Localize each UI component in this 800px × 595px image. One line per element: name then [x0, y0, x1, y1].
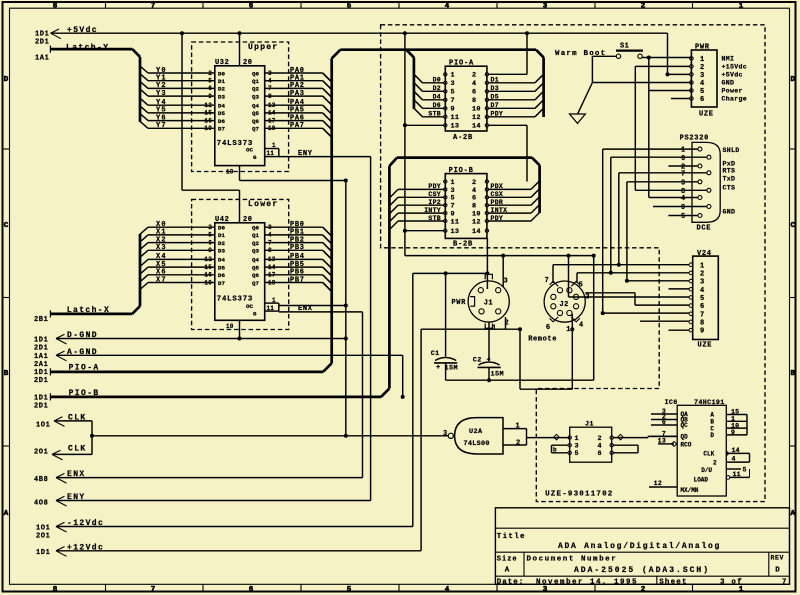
svg-text:PS2320: PS2320: [680, 134, 709, 142]
svg-text:5: 5: [451, 89, 455, 97]
svg-text:1: 1: [566, 326, 571, 334]
svg-text:4: 4: [700, 80, 705, 88]
svg-text:3: 3: [268, 224, 272, 231]
svg-text:IP2: IP2: [428, 199, 441, 206]
svg-text:1D1: 1D1: [36, 549, 50, 557]
svg-text:11: 11: [451, 114, 460, 122]
svg-text:CSY: CSY: [428, 191, 441, 198]
svg-text:Q3: Q3: [252, 93, 259, 100]
svg-text:D0: D0: [218, 70, 225, 77]
svg-text:STB: STB: [428, 111, 441, 118]
svg-text:S1: S1: [620, 43, 629, 51]
svg-text:6: 6: [249, 3, 254, 11]
svg-text:INTY: INTY: [424, 207, 441, 214]
svg-text:6: 6: [472, 195, 476, 203]
svg-text:9: 9: [208, 93, 212, 100]
svg-text:8: 8: [53, 586, 58, 594]
svg-text:Q4: Q4: [252, 257, 259, 264]
svg-text:A-2B: A-2B: [453, 134, 473, 142]
svg-text:D5: D5: [491, 94, 499, 101]
svg-text:PIO-B: PIO-B: [449, 167, 474, 175]
svg-text:9: 9: [681, 204, 686, 212]
svg-text:3: 3: [700, 279, 705, 287]
svg-text:4: 4: [681, 195, 686, 203]
svg-text:7: 7: [782, 578, 787, 586]
svg-text:D5: D5: [218, 264, 225, 271]
svg-text:STB: STB: [428, 215, 441, 222]
svg-text:15: 15: [204, 264, 212, 271]
svg-text:D7: D7: [218, 280, 225, 287]
svg-text:3: 3: [543, 3, 548, 11]
svg-text:D1: D1: [218, 78, 225, 85]
svg-text:MX/MN: MX/MN: [680, 487, 698, 494]
svg-text:OC: OC: [246, 303, 253, 310]
svg-text:2: 2: [472, 179, 476, 187]
svg-text:Charge: Charge: [722, 96, 748, 103]
svg-text:+15Vdc: +15Vdc: [722, 64, 748, 71]
svg-text:ENX: ENX: [298, 305, 313, 313]
svg-text:D2: D2: [433, 85, 441, 92]
svg-text:1: 1: [700, 56, 705, 64]
svg-text:RTS: RTS: [723, 168, 736, 175]
svg-text:5: 5: [451, 195, 455, 203]
svg-text:17: 17: [268, 272, 276, 279]
svg-text:19: 19: [204, 125, 212, 132]
svg-text:Q5: Q5: [252, 264, 259, 271]
svg-text:7: 7: [268, 239, 272, 246]
svg-text:13: 13: [268, 102, 276, 109]
svg-text:PDY: PDY: [428, 183, 441, 190]
svg-text:D: D: [775, 567, 780, 575]
svg-text:5: 5: [743, 466, 747, 473]
svg-text:2D1: 2D1: [34, 377, 48, 385]
svg-text:PWR: PWR: [695, 43, 710, 51]
svg-text:1D1: 1D1: [34, 337, 48, 345]
svg-text:D/U: D/U: [701, 467, 712, 474]
svg-text:74LS373: 74LS373: [217, 296, 253, 304]
svg-text:1D1: 1D1: [34, 369, 48, 377]
svg-text:Q0: Q0: [252, 70, 259, 77]
svg-text:D6: D6: [433, 102, 441, 109]
svg-text:CSX: CSX: [491, 191, 504, 198]
svg-text:Date:: Date:: [497, 578, 525, 586]
svg-text:NMI: NMI: [722, 56, 735, 63]
svg-text:U32: U32: [215, 59, 229, 67]
svg-text:1D1: 1D1: [34, 394, 48, 402]
svg-text:6: 6: [700, 96, 705, 104]
svg-text:8: 8: [700, 320, 705, 328]
svg-text:Q4: Q4: [252, 103, 259, 110]
svg-text:2: 2: [516, 440, 521, 448]
svg-text:D4: D4: [218, 103, 225, 110]
svg-text:2: 2: [208, 224, 212, 231]
svg-text:G: G: [253, 311, 257, 318]
svg-text:14: 14: [472, 123, 481, 131]
svg-text:D6: D6: [218, 272, 225, 279]
svg-text:9: 9: [208, 247, 212, 254]
svg-text:4: 4: [268, 232, 272, 239]
svg-text:D6: D6: [218, 118, 225, 125]
svg-text:13: 13: [451, 123, 460, 131]
svg-text:3: 3: [504, 278, 509, 286]
svg-text:14: 14: [732, 447, 740, 454]
svg-text:D3: D3: [218, 248, 225, 255]
svg-text:D3: D3: [491, 85, 499, 92]
svg-text:J2: J2: [560, 301, 569, 309]
svg-text:2: 2: [700, 270, 705, 278]
svg-text:20: 20: [243, 216, 253, 224]
svg-text:D4: D4: [433, 94, 441, 101]
svg-text:Q6: Q6: [252, 118, 259, 125]
svg-text:8: 8: [268, 93, 272, 100]
svg-text:Q3: Q3: [252, 248, 259, 255]
svg-text:4: 4: [445, 586, 450, 594]
svg-text:Q2: Q2: [252, 240, 259, 247]
svg-text:1: 1: [272, 297, 276, 304]
svg-text:1O1: 1O1: [36, 421, 50, 429]
svg-text:J1: J1: [484, 300, 493, 308]
svg-text:UZE: UZE: [699, 110, 714, 118]
svg-text:1: 1: [272, 142, 276, 149]
svg-text:9: 9: [451, 211, 455, 219]
svg-text:10: 10: [226, 168, 234, 175]
svg-text:PDX: PDX: [491, 183, 504, 190]
svg-text:3: 3: [681, 179, 686, 187]
svg-text:18: 18: [268, 279, 276, 286]
svg-text:Power: Power: [722, 88, 743, 95]
svg-text:ADA Analog/Digital/Analog: ADA Analog/Digital/Analog: [558, 542, 721, 551]
svg-text:12: 12: [472, 114, 481, 122]
svg-text:PB7: PB7: [290, 276, 305, 284]
svg-text:2B1: 2B1: [34, 316, 48, 324]
svg-text:1: 1: [739, 3, 744, 11]
svg-text:U2A: U2A: [469, 428, 483, 436]
svg-text:Lower: Lower: [248, 200, 279, 209]
svg-text:9: 9: [451, 106, 455, 114]
svg-text:2: 2: [641, 586, 646, 594]
svg-text:8: 8: [53, 3, 58, 11]
svg-text:4: 4: [472, 80, 476, 88]
svg-text:4: 4: [700, 287, 705, 295]
svg-text:2: 2: [713, 459, 717, 466]
svg-text:6: 6: [249, 586, 254, 594]
svg-text:6: 6: [472, 89, 476, 97]
svg-text:7: 7: [151, 586, 156, 594]
svg-text:5: 5: [700, 295, 705, 303]
svg-text:16: 16: [204, 272, 212, 279]
svg-text:Document Number: Document Number: [527, 556, 618, 564]
svg-text:REV: REV: [771, 554, 785, 561]
svg-text:6: 6: [700, 303, 705, 311]
svg-text:11: 11: [451, 218, 460, 226]
svg-text:D7: D7: [491, 102, 499, 109]
svg-text:1A1: 1A1: [34, 353, 48, 361]
svg-text:Q2: Q2: [252, 86, 259, 93]
svg-text:74LS00: 74LS00: [464, 440, 490, 448]
svg-text:D0: D0: [433, 77, 441, 84]
svg-text:INTX: INTX: [491, 207, 508, 214]
svg-text:13: 13: [658, 437, 666, 444]
svg-text:12: 12: [472, 218, 481, 226]
svg-text:10: 10: [226, 323, 234, 330]
svg-text:ADA-25025 (ADA3.SCH): ADA-25025 (ADA3.SCH): [574, 566, 710, 575]
svg-text:PA3: PA3: [290, 90, 305, 98]
svg-text:PWR: PWR: [452, 299, 467, 307]
svg-text:4B8: 4B8: [34, 476, 48, 484]
svg-text:IC6: IC6: [665, 399, 678, 407]
svg-text:C1: C1: [431, 350, 440, 358]
svg-text:CTS: CTS: [723, 185, 736, 192]
svg-text:+: +: [436, 364, 440, 372]
svg-text:6: 6: [546, 324, 551, 332]
svg-text:Q7: Q7: [252, 126, 259, 133]
svg-text:Title: Title: [497, 533, 526, 541]
svg-text:Q1: Q1: [252, 232, 259, 239]
svg-text:7: 7: [545, 277, 550, 285]
svg-text:SHLD: SHLD: [723, 147, 740, 154]
svg-text:1: 1: [451, 179, 455, 187]
svg-text:Q0: Q0: [252, 225, 259, 232]
svg-text:3: 3: [585, 294, 590, 302]
svg-text:+5Vdc: +5Vdc: [722, 72, 743, 79]
svg-text:November 14, 1995: November 14, 1995: [536, 578, 638, 586]
svg-text:16: 16: [204, 117, 212, 124]
svg-text:Remote: Remote: [528, 336, 557, 344]
svg-text:14: 14: [472, 228, 481, 236]
svg-text:15M: 15M: [445, 364, 458, 372]
svg-text:RCO: RCO: [681, 442, 692, 449]
svg-text:D: D: [4, 76, 9, 84]
svg-text:D5: D5: [218, 110, 225, 117]
svg-text:QD: QD: [681, 434, 689, 441]
svg-text:CLK: CLK: [703, 451, 714, 458]
svg-text:5: 5: [579, 281, 584, 289]
svg-text:1: 1: [700, 262, 705, 270]
svg-text:6: 6: [208, 239, 212, 246]
svg-text:15M: 15M: [491, 371, 504, 379]
svg-text:7: 7: [681, 170, 686, 178]
svg-text:2: 2: [505, 320, 510, 328]
svg-text:PxD: PxD: [723, 161, 736, 168]
svg-text:14: 14: [268, 110, 276, 117]
svg-text:6: 6: [598, 450, 602, 458]
svg-text:14: 14: [268, 264, 276, 271]
svg-text:B: B: [791, 370, 796, 378]
svg-text:11: 11: [267, 305, 275, 312]
svg-text:20: 20: [243, 59, 253, 67]
svg-text:8: 8: [472, 203, 476, 211]
svg-text:2: 2: [641, 3, 646, 11]
svg-text:2D1: 2D1: [34, 345, 48, 353]
svg-text:LOAD: LOAD: [694, 477, 709, 484]
svg-text:A: A: [791, 510, 796, 518]
svg-text:4: 4: [472, 187, 476, 195]
svg-text:7: 7: [451, 97, 455, 105]
svg-text:3: 3: [451, 80, 455, 88]
svg-text:2O1: 2O1: [36, 533, 50, 541]
svg-text:4: 4: [268, 78, 272, 85]
svg-text:2: 2: [700, 64, 705, 72]
svg-text:3: 3: [443, 430, 448, 438]
svg-text:9: 9: [731, 429, 735, 436]
svg-text:TxD: TxD: [723, 176, 736, 183]
svg-text:U42: U42: [215, 216, 229, 224]
svg-text:5: 5: [347, 586, 352, 594]
svg-text:C: C: [791, 222, 796, 230]
svg-text:5: 5: [347, 3, 352, 11]
svg-text:4O8: 4O8: [34, 499, 48, 507]
svg-text:Size: Size: [497, 556, 518, 564]
svg-text:ENY: ENY: [298, 150, 313, 158]
svg-text:10: 10: [472, 106, 481, 114]
svg-text:19: 19: [204, 279, 212, 286]
svg-text:3 of: 3 of: [720, 578, 743, 586]
svg-text:J1: J1: [585, 421, 594, 429]
svg-text:UZE: UZE: [698, 341, 713, 349]
svg-text:1: 1: [739, 586, 744, 594]
svg-text:Upper: Upper: [248, 43, 279, 52]
svg-text:1D1: 1D1: [35, 31, 49, 39]
svg-text:D4: D4: [218, 257, 225, 264]
svg-text:Y7: Y7: [156, 122, 167, 130]
svg-text:9: 9: [700, 328, 705, 336]
svg-text:PIO-A: PIO-A: [449, 59, 474, 67]
svg-text:8: 8: [268, 247, 272, 254]
svg-text:GND: GND: [722, 80, 735, 87]
svg-text:B: B: [4, 370, 9, 378]
svg-text:7: 7: [268, 85, 272, 92]
svg-text:PA7: PA7: [290, 122, 305, 130]
svg-text:7: 7: [151, 3, 156, 11]
svg-text:7: 7: [700, 311, 705, 319]
svg-text:5: 5: [575, 450, 579, 458]
svg-text:2O1: 2O1: [34, 448, 48, 456]
svg-text:D2: D2: [218, 86, 225, 93]
svg-text:Sheet: Sheet: [659, 578, 688, 586]
svg-text:5: 5: [700, 88, 705, 96]
svg-text:3: 3: [700, 72, 705, 80]
svg-text:D7: D7: [218, 126, 225, 133]
svg-text:C: C: [4, 222, 9, 230]
svg-text:1O1: 1O1: [36, 525, 50, 533]
svg-text:2D1: 2D1: [35, 39, 49, 47]
svg-text:13: 13: [451, 228, 460, 236]
svg-text:1: 1: [516, 422, 521, 430]
svg-text:1: 1: [681, 147, 686, 155]
svg-text:6: 6: [681, 155, 686, 163]
svg-text:DCE: DCE: [697, 224, 712, 232]
svg-text:74LS373: 74LS373: [217, 140, 253, 148]
svg-text:G: G: [253, 154, 257, 161]
svg-text:10: 10: [472, 211, 481, 219]
svg-text:Q5: Q5: [252, 110, 259, 117]
svg-text:4: 4: [732, 456, 736, 463]
svg-text:Q7: Q7: [252, 280, 259, 287]
svg-text:X7: X7: [156, 276, 167, 284]
svg-text:11: 11: [267, 150, 275, 157]
svg-text:5: 5: [208, 78, 212, 85]
svg-text:3: 3: [268, 70, 272, 77]
svg-text:D1: D1: [491, 77, 499, 84]
svg-text:2A1: 2A1: [34, 361, 48, 369]
svg-text:12: 12: [204, 256, 212, 263]
svg-text:15: 15: [204, 110, 212, 117]
svg-text:1: 1: [451, 72, 455, 80]
svg-text:D1: D1: [218, 232, 225, 239]
svg-text:6: 6: [208, 85, 212, 92]
svg-text:17: 17: [268, 117, 276, 124]
svg-text:3: 3: [543, 586, 548, 594]
svg-text:3: 3: [451, 187, 455, 195]
svg-text:2: 2: [472, 72, 476, 80]
svg-text:A: A: [505, 567, 510, 575]
svg-text:5: 5: [681, 213, 686, 221]
svg-text:D3: D3: [218, 93, 225, 100]
svg-text:13: 13: [268, 256, 276, 263]
svg-text:D2: D2: [218, 240, 225, 247]
svg-text:D0: D0: [218, 225, 225, 232]
svg-text:D: D: [710, 432, 714, 439]
svg-text:8: 8: [472, 97, 476, 105]
svg-text:2D1: 2D1: [34, 402, 48, 410]
svg-text:GND: GND: [723, 209, 736, 216]
svg-text:D: D: [791, 76, 796, 84]
svg-text:1A1: 1A1: [35, 55, 49, 63]
svg-text:A: A: [4, 510, 9, 518]
svg-text:PDR: PDR: [491, 199, 504, 206]
svg-text:1: 1: [492, 325, 497, 333]
svg-text:V24: V24: [697, 250, 712, 258]
svg-text:74HC191: 74HC191: [694, 399, 725, 407]
svg-text:Y3: Y3: [156, 90, 167, 98]
svg-text:PDY: PDY: [491, 111, 504, 118]
svg-text:4: 4: [579, 321, 584, 329]
svg-text:Q1: Q1: [252, 78, 259, 85]
svg-text:X3: X3: [156, 244, 167, 252]
svg-text:5: 5: [208, 232, 212, 239]
svg-text:b: b: [553, 446, 557, 453]
svg-text:4: 4: [445, 3, 450, 11]
svg-text:QC: QC: [681, 422, 689, 429]
svg-text:7: 7: [451, 203, 455, 211]
svg-text:UZE-93011702: UZE-93011702: [545, 490, 613, 498]
svg-text:6: 6: [662, 419, 666, 426]
svg-text:11: 11: [733, 471, 741, 478]
svg-text:Q6: Q6: [252, 272, 259, 279]
svg-text:12: 12: [204, 102, 212, 109]
svg-text:CLK: CLK: [68, 444, 87, 453]
svg-text:2: 2: [208, 70, 212, 77]
svg-text:B-2B: B-2B: [453, 241, 473, 249]
svg-text:12: 12: [654, 480, 662, 487]
svg-text:18: 18: [268, 125, 276, 132]
svg-text:PB3: PB3: [290, 244, 305, 252]
